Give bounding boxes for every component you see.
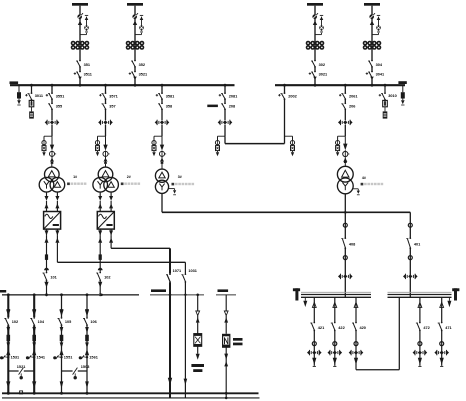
svg-text:472: 472 — [423, 326, 429, 330]
svg-text:3#: 3# — [178, 175, 182, 179]
svg-text:3010: 3010 — [388, 94, 397, 98]
svg-text:471: 471 — [445, 326, 452, 330]
svg-text:3581: 3581 — [166, 94, 175, 98]
svg-text:401: 401 — [414, 242, 421, 246]
svg-text:1551: 1551 — [64, 355, 73, 359]
svg-text:2#: 2# — [127, 175, 131, 179]
svg-text:1561: 1561 — [89, 355, 98, 359]
svg-text:3521: 3521 — [139, 73, 148, 77]
svg-text:1521: 1521 — [17, 365, 26, 369]
svg-text:102: 102 — [12, 320, 18, 324]
svg-text:3021: 3021 — [319, 73, 328, 77]
svg-text:302: 302 — [319, 63, 325, 67]
svg-text:358: 358 — [166, 105, 173, 109]
svg-text:355: 355 — [56, 105, 63, 109]
svg-text:3511: 3511 — [84, 73, 93, 77]
svg-text:105: 105 — [65, 320, 72, 324]
svg-text:351: 351 — [84, 63, 91, 67]
svg-text:421: 421 — [318, 326, 325, 330]
svg-text:3551: 3551 — [56, 94, 65, 98]
svg-text:1071: 1071 — [173, 269, 182, 273]
svg-text:408: 408 — [349, 242, 356, 246]
svg-text:2002: 2002 — [288, 94, 297, 98]
svg-text:304: 304 — [376, 63, 383, 67]
svg-text:1531: 1531 — [11, 355, 20, 359]
svg-text:4#: 4# — [362, 176, 366, 180]
svg-text:3571: 3571 — [109, 94, 118, 98]
svg-text:422: 422 — [338, 326, 344, 330]
svg-text:357: 357 — [109, 105, 115, 109]
svg-text:1503: 1503 — [81, 365, 90, 369]
svg-text:1#: 1# — [73, 175, 77, 179]
svg-text:2061: 2061 — [349, 94, 358, 98]
svg-text:1031: 1031 — [188, 269, 197, 273]
svg-text:1541: 1541 — [37, 355, 46, 359]
svg-text:104: 104 — [38, 320, 45, 324]
svg-text:420: 420 — [360, 326, 366, 330]
svg-text:106: 106 — [90, 320, 96, 324]
svg-text:3041: 3041 — [376, 73, 385, 77]
svg-text:2081: 2081 — [229, 94, 238, 98]
svg-text:102: 102 — [104, 275, 110, 279]
svg-text:3011: 3011 — [35, 94, 44, 98]
svg-text:352: 352 — [139, 63, 145, 67]
svg-text:206: 206 — [349, 105, 355, 109]
svg-text:208: 208 — [229, 105, 236, 109]
svg-text:101: 101 — [50, 275, 57, 279]
